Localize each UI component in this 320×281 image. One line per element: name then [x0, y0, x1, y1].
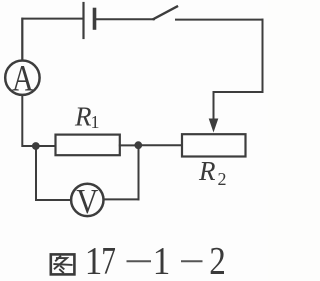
caption dash 1 — [127, 260, 152, 262]
wire: step horizontal at y=92 — [214, 91, 263, 93]
svg-text:1: 1 — [153, 240, 171, 281]
svg-text:7: 7 — [101, 239, 116, 281]
svg-text:R: R — [74, 101, 92, 131]
switch blade — [154, 7, 178, 20]
svg-text:2: 2 — [218, 169, 227, 189]
voltmeter V circle — [71, 184, 103, 216]
wire: wiper arrow stem — [213, 92, 215, 122]
wire: battery to switch pivot — [95, 18, 154, 20]
ammeter A circle — [5, 60, 39, 94]
node: right junction dot — [134, 141, 142, 149]
wire: voltmeter loop bottom-left horizontal — [36, 199, 71, 201]
wire: right vertical down — [262, 20, 264, 92]
rheostat R2 — [182, 134, 246, 156]
wire: voltmeter loop right vertical — [138, 145, 140, 199]
wire: ammeter bottom lead down to corner — [22, 96, 55, 146]
caption dash 2 — [181, 260, 203, 262]
caption character 图 — [51, 254, 75, 274]
svg-text:2: 2 — [209, 239, 226, 281]
wire: voltmeter loop left vertical — [35, 146, 37, 200]
battery long plate — [82, 3, 84, 38]
svg-text:A: A — [12, 58, 34, 99]
caption text 17-1-2 — [85, 239, 226, 281]
wire: voltmeter loop bottom-right horizontal — [105, 198, 139, 200]
svg-text:1: 1 — [91, 112, 100, 132]
node: left junction dot — [32, 142, 40, 150]
svg-text:V: V — [76, 183, 98, 221]
resistor R1 — [56, 135, 120, 156]
battery short plate — [93, 10, 97, 29]
svg-text:1: 1 — [85, 240, 103, 281]
wire: top-left horizontal from corner to battery — [22, 19, 83, 59]
wire: right node to rheostat R2 — [138, 144, 182, 146]
wire: switch right contact to top-right corner — [176, 19, 263, 21]
wire: ammeter top lead — [21, 19, 23, 60]
svg-text:R: R — [198, 156, 216, 186]
wiper arrowhead — [209, 119, 219, 133]
wire: R1 right edge to right node — [120, 144, 139, 146]
